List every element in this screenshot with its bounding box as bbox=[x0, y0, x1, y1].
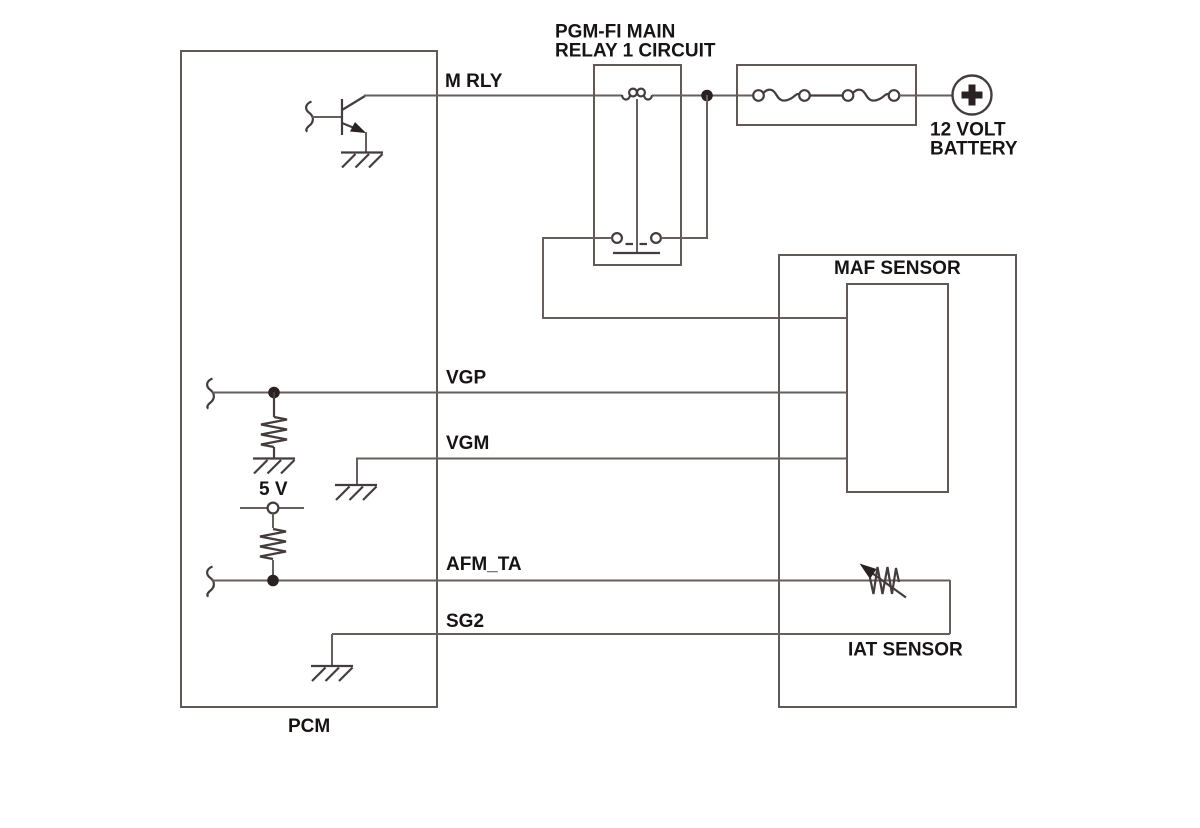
wire SG2 (IAT sensor to PCM) bbox=[332, 633, 950, 635]
svg-text:IAT SENSOR: IAT SENSOR bbox=[848, 640, 963, 661]
transistor Q1 emitter arrowhead bbox=[350, 122, 366, 133]
MAF sensor inner element box bbox=[847, 284, 948, 492]
wire SG2 to ground bbox=[331, 634, 333, 666]
thermistor RT1 arrowhead bbox=[860, 564, 877, 580]
battery BT1 plus terminal bbox=[962, 85, 983, 106]
svg-text:SG2: SG2 bbox=[446, 611, 484, 632]
ground G4 (SG2) bbox=[311, 666, 353, 681]
relay K1 contact circle left bbox=[612, 233, 622, 243]
resistor R2 bbox=[260, 529, 286, 559]
VGP wire break squiggle bbox=[207, 379, 214, 409]
relay K1 armature line bbox=[636, 99, 638, 252]
wire fuse box to battery bbox=[899, 95, 953, 97]
ground G3 (VGM) bbox=[335, 485, 377, 500]
node B junction dot bbox=[268, 387, 280, 399]
wire node A down to relay contact bbox=[661, 95, 707, 238]
node C junction dot bbox=[267, 575, 279, 587]
transistor Q1 emitter diagonal bbox=[342, 123, 364, 132]
MAF sensor box bbox=[779, 255, 1016, 707]
svg-text:M RLY: M RLY bbox=[445, 71, 503, 92]
thermistor RT1 zigzag bbox=[870, 567, 899, 594]
relay K1 contact dashed link bbox=[626, 243, 650, 245]
svg-text:12 VOLT: 12 VOLT bbox=[930, 120, 1006, 141]
svg-text:MAF SENSOR: MAF SENSOR bbox=[834, 258, 961, 279]
svg-text:PGM-FI MAIN: PGM-FI MAIN bbox=[555, 22, 675, 43]
svg-text:5 V: 5 V bbox=[259, 479, 288, 500]
transistor Q1 base lead break squiggle bbox=[306, 102, 313, 132]
fuse element circles and waves bbox=[753, 90, 899, 101]
wire relay contact left to MAF sensor bbox=[543, 238, 847, 318]
AFM_TA wire break squiggle bbox=[207, 567, 214, 597]
wire M RLY (collector to relay coil) bbox=[364, 95, 622, 97]
fuse box F1 bbox=[737, 65, 916, 125]
thermistor RT1 arrow line bbox=[872, 573, 906, 598]
relay K1 contact circle right bbox=[651, 233, 661, 243]
transistor Q1 base wire bbox=[312, 116, 342, 118]
wire switch to R2 bbox=[272, 514, 274, 529]
resistor R1 bbox=[261, 392, 287, 458]
svg-text:AFM_TA: AFM_TA bbox=[446, 554, 522, 575]
wire VGM (PCM to MAF sensor) bbox=[357, 459, 847, 485]
relay K1 coil bbox=[622, 89, 652, 100]
switch S1 5V supply line bbox=[240, 507, 304, 509]
svg-text:VGM: VGM bbox=[446, 433, 489, 454]
wire VGP (PCM to MAF sensor) bbox=[212, 392, 847, 394]
transistor Q1 emitter vertical wire bbox=[365, 132, 367, 152]
PCM box bbox=[181, 51, 437, 707]
svg-text:VGP: VGP bbox=[446, 368, 486, 389]
wire coil to fuse box (through node A) bbox=[652, 95, 753, 97]
relay K1 box bbox=[594, 65, 681, 265]
wire AFM_TA (PCM to IAT sensor) bbox=[212, 580, 950, 582]
relay K1 contact bar bbox=[613, 252, 660, 254]
node A junction dot bbox=[701, 90, 713, 102]
transistor Q1 collector diagonal bbox=[342, 96, 365, 110]
transistor Q1 base bar bbox=[341, 99, 343, 135]
wire R2 to node C bbox=[272, 560, 274, 580]
svg-text:BATTERY: BATTERY bbox=[930, 139, 1018, 160]
wire IAT sensor right side down bbox=[949, 580, 951, 634]
battery BT1 circle bbox=[953, 76, 992, 115]
svg-text:RELAY 1 CIRCUIT: RELAY 1 CIRCUIT bbox=[555, 41, 716, 62]
ground G2 (below R1) bbox=[253, 459, 295, 474]
svg-text:PCM: PCM bbox=[288, 716, 330, 737]
switch S1 contact circle bbox=[268, 503, 279, 514]
ground G1 (transistor emitter) bbox=[341, 153, 383, 168]
